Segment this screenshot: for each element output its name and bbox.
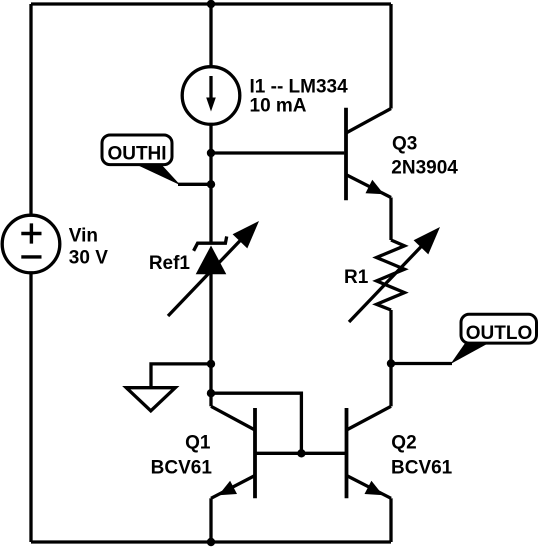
wire bottom rail (31, 540, 391, 543)
Vin plus sign (21, 223, 41, 243)
wire base rail Q1-Q2 (255, 452, 347, 455)
wire OUTLO node to flag (391, 362, 452, 365)
current source I1 circle (182, 67, 240, 125)
svg-text:Q2: Q2 (391, 432, 416, 453)
node base rail junction (297, 449, 305, 457)
OUTHI flag tail (134, 164, 181, 186)
svg-text:OUTLO: OUTLO (466, 323, 533, 344)
svg-text:Q1: Q1 (185, 432, 211, 453)
wire ground tap (151, 364, 211, 388)
wire top rail (31, 2, 391, 5)
Vin minus sign (21, 255, 41, 258)
node Q1 collector junction (207, 389, 215, 397)
wire left rail lower (29, 273, 32, 542)
svg-text:10 mA: 10 mA (250, 95, 307, 116)
svg-text:Ref1: Ref1 (149, 253, 191, 274)
wire collector-base tie (211, 393, 301, 453)
Q3 emitter diagonal (346, 175, 391, 198)
svg-text:Vin: Vin (69, 226, 98, 247)
wire Q3 base (211, 151, 344, 154)
Q3 collector diagonal (346, 109, 391, 134)
wire R1 bottom to OUTLO node (389, 310, 392, 364)
Ref1 adjust arrow shaft (168, 236, 245, 317)
Ref1 zener bar (194, 236, 227, 250)
transistor Q1 base bar (253, 408, 257, 498)
Q2 emitter diagonal (347, 476, 392, 499)
Q2 emitter arrow head (365, 481, 384, 496)
wire I1 top (209, 4, 212, 67)
R1 adjust arrow shaft (349, 242, 426, 323)
flag OUTLO box (461, 314, 537, 343)
wire I1 bottom to Ref1 (209, 125, 212, 243)
svg-text:BCV61: BCV61 (151, 457, 213, 478)
svg-text:30 V: 30 V (69, 248, 108, 269)
Ref1 arrow head (233, 221, 259, 248)
wire OUTHI to node (178, 183, 211, 186)
I1 arrow head (206, 98, 216, 112)
Ref1 diode triangle (196, 246, 227, 275)
Q3 emitter arrow head (366, 180, 385, 195)
wire Q2 collector to OUTLO node (389, 364, 392, 407)
voltage source Vin circle (2, 215, 60, 273)
node OUTHI flag junction (207, 180, 215, 188)
wire right rail top (389, 4, 392, 109)
wire Ref1 bottom (209, 274, 212, 406)
R1 arrow head (414, 227, 440, 254)
Q1 collector diagonal (211, 406, 255, 430)
Q1 emitter arrow head (219, 481, 238, 496)
svg-text:Q3: Q3 (392, 133, 417, 154)
Q2 collector diagonal (347, 406, 392, 430)
transistor Q2 base bar (345, 408, 349, 498)
resistor R1 zigzag (377, 240, 405, 310)
flag OUTHI box (102, 135, 172, 165)
OUTLO flag tail (451, 342, 492, 364)
wire Q2 emitter to bottom (389, 498, 392, 542)
node OUTLO junction (387, 359, 395, 367)
node bottom junction (207, 538, 215, 546)
wire Q1 emitter to bottom (209, 498, 212, 542)
node OUTHI-Q3 base junction (207, 149, 215, 157)
wire left rail upper (29, 4, 32, 215)
transistor Q3 base bar (344, 108, 348, 201)
Q1 emitter diagonal (211, 476, 255, 499)
svg-text:R1: R1 (344, 267, 369, 288)
ground symbol triangle (126, 388, 175, 411)
wire Q3 emitter to R1 (389, 198, 392, 241)
svg-text:2N3904: 2N3904 (391, 157, 458, 178)
node ground tap junction (207, 360, 215, 368)
node top junction (207, 0, 215, 8)
svg-text:BCV61: BCV61 (391, 457, 453, 478)
svg-text:OUTHI: OUTHI (107, 143, 166, 164)
I1 arrow shaft (209, 76, 212, 100)
